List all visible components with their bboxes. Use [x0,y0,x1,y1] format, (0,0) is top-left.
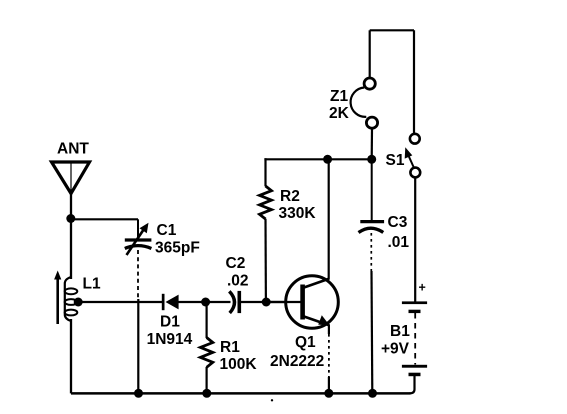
svg-text:Q1: Q1 [295,334,316,351]
svg-text:L1: L1 [83,276,101,293]
svg-text:2K: 2K [329,105,350,122]
svg-text:.01: .01 [388,234,410,251]
svg-text:Z1: Z1 [330,88,348,105]
svg-text:ANT: ANT [57,141,89,158]
svg-text:330K: 330K [279,205,317,222]
svg-text:S1: S1 [386,152,405,169]
svg-text:C1: C1 [157,222,177,239]
svg-text:D1: D1 [160,314,180,331]
svg-text:+: + [419,281,426,295]
svg-text:R2: R2 [280,188,300,205]
svg-text:C2: C2 [226,255,246,272]
svg-text:.02: .02 [227,273,249,290]
svg-text:365pF: 365pF [155,240,200,257]
svg-text:C3: C3 [388,214,408,231]
svg-text:+9V: +9V [381,341,410,358]
svg-text:B1: B1 [390,323,410,340]
svg-text:R1: R1 [220,339,240,356]
svg-text:1N914: 1N914 [147,331,193,348]
svg-text:2N2222: 2N2222 [270,353,324,370]
svg-text:100K: 100K [220,356,258,373]
